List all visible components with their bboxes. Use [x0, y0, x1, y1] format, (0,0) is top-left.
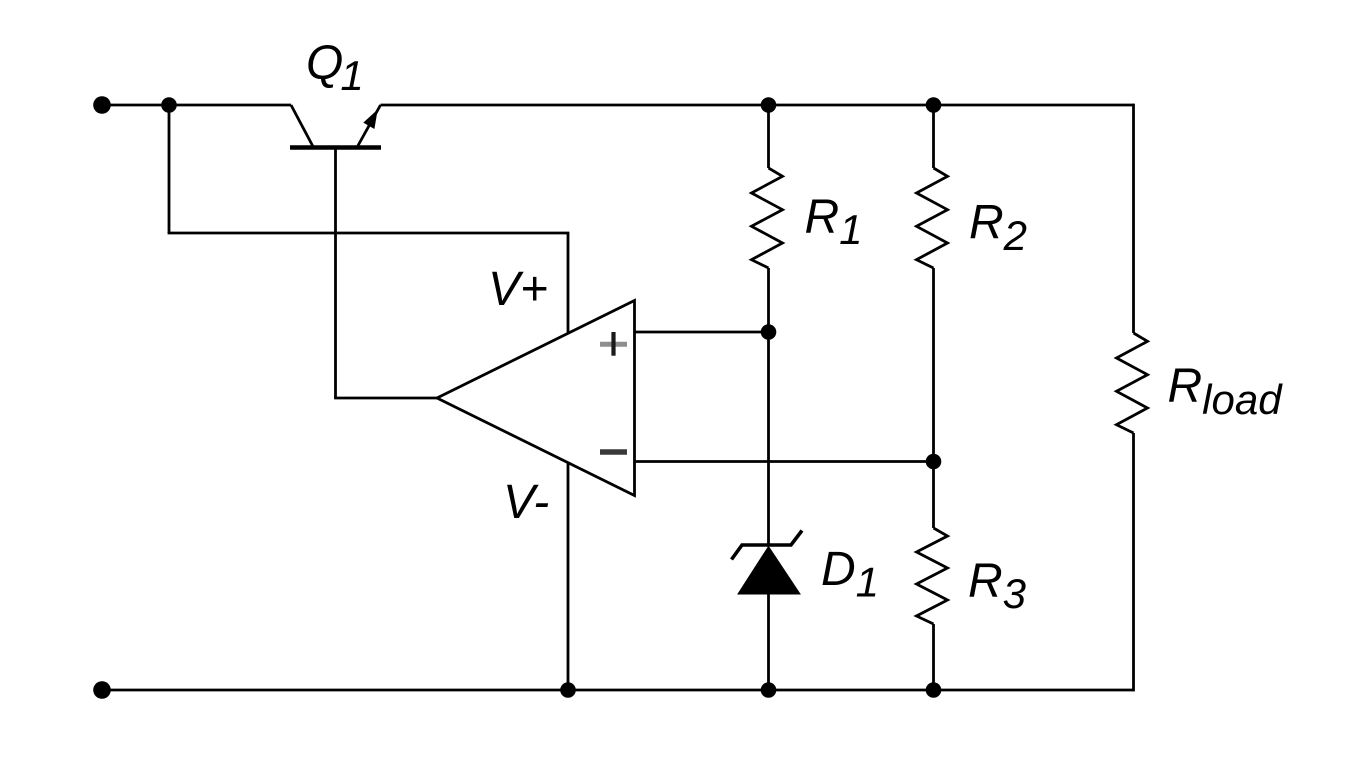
node junction dot bottom rail at V- [560, 682, 576, 698]
wire top rail left segment [102, 104, 291, 107]
resistor R3 [917, 528, 948, 624]
svg-text:V-: V- [503, 476, 549, 529]
wire from R2 down to R3 node [932, 268, 935, 528]
wire base line of Q1 from bar down to op-amp output level [334, 148, 337, 399]
diode D1 anode triangle [738, 547, 800, 595]
wire right branch down to Rload [1132, 104, 1135, 333]
svg-text:V+: V+ [488, 263, 548, 316]
node input terminal dot (top left) [93, 96, 111, 114]
wire noninverting input from op-amp to R1/D1 node [635, 331, 769, 334]
wire vertical from top rail junction down at x=169 [168, 105, 171, 233]
wire V+ supply vertical into op-amp [567, 233, 570, 333]
wire from D1 to bottom rail [767, 594, 770, 690]
resistor Rload [1117, 333, 1148, 433]
node junction dot top rail at R1 [761, 97, 777, 113]
node junction dot top rail at x=169 [161, 97, 177, 113]
wire from top rail down to R1 [767, 105, 770, 168]
wire op-amp output to base corner [334, 397, 437, 400]
wire horizontal at y=233 to V+ [168, 232, 570, 235]
node junction dot at - input / R2 / R3 [926, 454, 942, 470]
resistor R2 [917, 168, 948, 268]
node junction dot at + input / R1 / D1 [761, 324, 777, 340]
wire bottom rail [102, 689, 1134, 692]
node junction dot bottom rail at D1 [761, 682, 777, 698]
node junction dot top rail at R2 [926, 97, 942, 113]
op-amp U1 triangle [437, 301, 635, 496]
wire top rail right segment [381, 104, 1134, 107]
op-amp plus input marking [600, 332, 627, 356]
wire V- supply vertical from op-amp to bottom rail [567, 464, 570, 691]
wire from R3 to bottom rail [932, 624, 935, 690]
wire from top rail down to R2 [932, 105, 935, 168]
wire inverting input from op-amp to R2/R3 node [635, 460, 934, 463]
node ground terminal dot (bottom left) [93, 681, 111, 699]
wire from Rload to bottom rail [1132, 433, 1135, 691]
diode D1 (zener) cathode bar with bent ends [732, 531, 803, 560]
transistor Q1 (NPN pass transistor) [290, 105, 381, 148]
op-amp minus input marking [600, 449, 627, 455]
node junction dot bottom rail at R3 [926, 682, 942, 698]
wire from R1 down to D1 [767, 268, 770, 545]
resistor R1 [752, 168, 783, 268]
